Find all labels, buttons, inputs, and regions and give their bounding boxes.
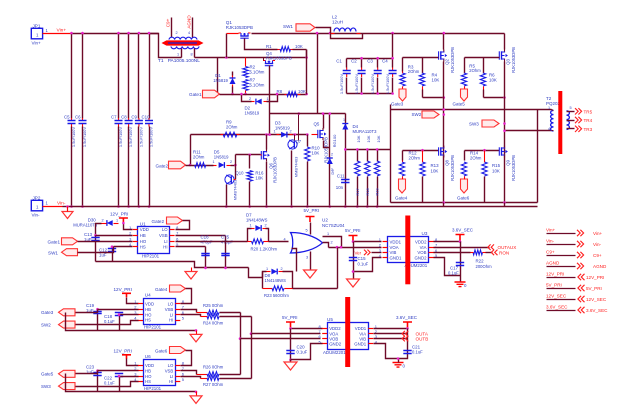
svg-text:2: 2 <box>265 223 267 227</box>
svg-text:3: 3 <box>306 255 308 259</box>
wire D30 to C13 <box>96 224 102 236</box>
svg-text:4: 4 <box>188 31 190 35</box>
junction on Vin- bus x=138.9 <box>138 205 141 208</box>
ground U6 cell <box>195 391 198 394</box>
svg-text:12V_PRI: 12V_PRI <box>110 211 128 216</box>
svg-text:RON: RON <box>499 250 509 255</box>
wire vertical C8 column <box>128 34 130 119</box>
svg-text:Vin+: Vin+ <box>546 228 556 233</box>
wire SW row horizontal <box>391 109 552 111</box>
svg-text:5V_PRI: 5V_PRI <box>586 286 602 291</box>
capacitor C20 0.1uF <box>290 329 292 360</box>
svg-text:1.5uF/100V: 1.5uF/100V <box>128 127 133 148</box>
svg-text:TR5: TR5 <box>584 109 593 114</box>
svg-text:1: 1 <box>213 160 215 164</box>
svg-text:1: 1 <box>331 168 333 172</box>
wire VOB row to U5 <box>241 338 321 340</box>
svg-text:GND1: GND1 <box>354 342 367 347</box>
svg-text:GND2: GND2 <box>329 342 342 347</box>
svg-text:1: 1 <box>267 97 269 101</box>
capacitor C23 1uF <box>97 371 99 392</box>
svg-text:TR3: TR3 <box>584 127 593 132</box>
svg-text:VSB: VSB <box>165 368 174 373</box>
net flag TR3 <box>575 126 582 132</box>
ground C20 <box>289 359 292 362</box>
power 5V_PRI stem to U2 <box>310 223 312 235</box>
svg-text:Gate6: Gate6 <box>457 196 470 201</box>
svg-text:1N5819: 1N5819 <box>245 110 260 115</box>
transformer T1 PA1005.100NL <box>171 18 173 38</box>
svg-text:0.1uF: 0.1uF <box>104 319 115 324</box>
svg-text:Q3: Q3 <box>506 59 511 65</box>
resistor R2 5.1Ohm <box>245 58 247 67</box>
svg-text:Gate1: Gate1 <box>189 92 202 97</box>
svg-text:R22: R22 <box>476 258 485 263</box>
diode D3 1N5819 <box>277 134 280 136</box>
svg-text:5: 5 <box>570 106 572 110</box>
svg-text:4: 4 <box>284 237 286 241</box>
capacitor C3 1.5uF/100V <box>377 59 379 68</box>
resistor R12 2Ohm <box>402 151 404 161</box>
svg-text:3.6V_SEC: 3.6V_SEC <box>396 315 418 320</box>
svg-text:VDD: VDD <box>145 363 154 368</box>
capacitor C17 0.1uF <box>460 242 462 283</box>
capacitor C10 1.5uF/100V <box>148 118 150 127</box>
capacitor C15 0.1uF <box>353 242 355 280</box>
svg-text:Vin+: Vin+ <box>32 41 42 46</box>
wire Gate5 to HB <box>76 373 98 375</box>
resistor R7 5.1Ohm <box>243 80 248 91</box>
svg-text:HO: HO <box>145 312 152 317</box>
ground at JP2 <box>66 205 69 208</box>
wire D5 to gate node <box>231 165 236 167</box>
resistor R13 10K <box>422 151 424 163</box>
svg-text:Q8: Q8 <box>445 160 450 166</box>
svg-text:1N5819: 1N5819 <box>214 155 229 160</box>
resistor R15 10K <box>484 151 486 163</box>
junction on Vin- bus x=128.6 <box>127 205 130 208</box>
svg-text:10K: 10K <box>492 169 500 174</box>
junction on Vin+ bus x=138.9 <box>138 32 141 35</box>
wire VIA to OUTAUX <box>434 247 490 249</box>
wire VOA row to U5 <box>252 333 321 335</box>
wire vertical C10 column <box>149 34 151 119</box>
svg-text:OUTB: OUTB <box>416 337 429 342</box>
wire cap bank bottom bus <box>347 93 393 95</box>
svg-text:2: 2 <box>281 267 283 271</box>
junction SW1 stem <box>329 32 332 35</box>
svg-text:RJK1053DPB: RJK1053DPB <box>266 56 292 61</box>
svg-text:RJK1053DPB: RJK1053DPB <box>511 47 516 73</box>
svg-text:C10: C10 <box>142 115 151 120</box>
junction on Vin+ bus x=82.5 <box>81 32 84 35</box>
resistor R26 0Ohm <box>181 371 197 375</box>
svg-text:200Ohm: 200Ohm <box>476 264 493 269</box>
net flag OUTA <box>402 331 408 337</box>
junction on Vin+ bus x=149 <box>148 32 151 35</box>
net flag OUTAUX <box>488 244 494 250</box>
svg-text:1.5uF/100V: 1.5uF/100V <box>138 127 143 148</box>
svg-text:HB: HB <box>145 307 151 312</box>
wire R23 row to feedback vertical <box>293 288 338 290</box>
wire T2 primary pin4 row <box>505 130 552 132</box>
svg-text:HB: HB <box>140 233 146 238</box>
svg-text:SW1: SW1 <box>283 24 293 29</box>
wire VIB to OUTB <box>374 338 408 340</box>
svg-text:Gate2: Gate2 <box>152 219 165 224</box>
wire Q1 gate drop <box>245 39 253 50</box>
wire Vin- bus <box>68 206 538 208</box>
svg-text:8: 8 <box>191 53 193 57</box>
svg-text:VOB: VOB <box>329 336 338 341</box>
svg-text:R18: R18 <box>365 188 370 196</box>
svg-text:HI: HI <box>169 379 173 384</box>
wire vertical C9 column <box>138 34 140 119</box>
wire U6 ground rail <box>66 374 197 392</box>
flag Gate3 (power stage) <box>399 89 406 101</box>
capacitor C13 1uF <box>95 236 97 262</box>
svg-text:VIB: VIB <box>359 336 366 341</box>
svg-text:U6: U6 <box>145 354 151 359</box>
svg-text:MMBT4403: MMBT4403 <box>294 156 299 177</box>
wire Gate1 to HO <box>78 241 133 243</box>
wire rail into D8 box <box>249 268 263 278</box>
wire U5 GND1 route <box>374 344 408 359</box>
diode D30 MURA110T3 <box>114 223 119 225</box>
wire 12V to U6 VDD <box>127 359 139 366</box>
svg-text:C7: C7 <box>111 115 117 120</box>
T2 primary winding <box>551 111 554 132</box>
svg-text:3.6V_SEC: 3.6V_SEC <box>586 308 608 313</box>
svg-text:JP1: JP1 <box>33 23 41 28</box>
svg-text:U3: U3 <box>422 231 428 236</box>
wire R17-R19 top bus <box>346 149 391 151</box>
wire VIA to OUTA <box>374 333 408 335</box>
wire LO to Gate4 <box>181 289 192 304</box>
T1 core bar <box>162 40 204 45</box>
svg-text:12V_PRI: 12V_PRI <box>546 272 564 277</box>
svg-text:C6: C6 <box>75 115 81 120</box>
svg-text:LI: LI <box>170 312 174 317</box>
svg-text:VOB: VOB <box>417 250 426 255</box>
wire R5 R6 gate bus <box>465 57 500 59</box>
resistor R18 10K <box>367 150 369 162</box>
svg-text:5V_PRI: 5V_PRI <box>282 315 298 320</box>
svg-text:1: 1 <box>116 218 118 222</box>
svg-text:12uH: 12uH <box>332 20 343 25</box>
junction on Vin- bus x=82.5 <box>81 205 84 208</box>
resistor R22 200Ohm <box>434 252 471 254</box>
wire switch-node row <box>270 113 346 115</box>
diode D6 <box>327 158 333 164</box>
svg-text:C5: C5 <box>64 115 70 120</box>
svg-text:HIP2101: HIP2101 <box>142 254 160 259</box>
isolation barrier U3 <box>405 216 410 285</box>
wire Q10 collector down <box>226 185 228 207</box>
ground U1 cell <box>191 268 193 272</box>
svg-text:SW1: SW1 <box>48 251 58 256</box>
capacitor C16 470pF <box>201 254 209 256</box>
wire cap bank drop <box>392 34 394 59</box>
wire LO to Gate6 <box>181 351 192 366</box>
svg-text:Q7: Q7 <box>296 139 302 144</box>
svg-text:LO: LO <box>168 302 174 307</box>
resistor R3 2Ohm <box>402 58 404 72</box>
wire cell3 <box>537 110 539 203</box>
svg-text:Gate5: Gate5 <box>453 101 466 106</box>
junction on Vin- bus x=71.5 <box>70 205 73 208</box>
net flag TR5 <box>575 108 582 114</box>
junction on Vin- bus x=149 <box>148 205 151 208</box>
svg-text:SW3: SW3 <box>41 384 51 389</box>
svg-text:12V_PRI: 12V_PRI <box>114 348 132 353</box>
svg-text:2Ohm: 2Ohm <box>409 156 421 161</box>
wire D4 branch <box>345 114 347 207</box>
svg-text:2: 2 <box>290 130 292 134</box>
svg-text:Ver: Ver <box>355 250 362 255</box>
wire vertical C5 column <box>71 34 73 119</box>
svg-text:C1: C1 <box>336 59 342 64</box>
wire R27 up <box>251 334 253 379</box>
svg-text:SW2: SW2 <box>412 112 422 117</box>
svg-text:R20 1.2KOhm: R20 1.2KOhm <box>251 247 278 252</box>
wire U1 HB row <box>96 235 133 237</box>
wire LI row to D7 box <box>176 241 248 243</box>
svg-text:5V_PRI: 5V_PRI <box>345 228 361 233</box>
svg-text:2Ohm: 2Ohm <box>408 69 420 74</box>
resistor R6 10K <box>483 58 485 74</box>
svg-text:1N4148WS: 1N4148WS <box>265 278 287 283</box>
wire 5V to U3 VDD1 <box>354 241 382 243</box>
svg-text:C11: C11 <box>337 173 345 178</box>
svg-text:1.5uF/100V: 1.5uF/100V <box>118 127 123 148</box>
svg-text:MURA110T3: MURA110T3 <box>353 129 378 134</box>
svg-text:10K: 10K <box>255 176 263 181</box>
svg-text:Gate3: Gate3 <box>41 310 54 315</box>
wire Gate1 row <box>220 94 307 96</box>
svg-text:PA1005.100NL: PA1005.100NL <box>168 58 201 64</box>
wire R12 gate row <box>403 150 439 152</box>
net flag OUTB <box>402 336 408 342</box>
wire cell2 left outline <box>390 110 392 203</box>
wire VSB row / C75 <box>176 235 226 237</box>
svg-text:SW2: SW2 <box>41 322 51 327</box>
wire R14 gate row <box>465 150 500 152</box>
svg-text:VDD1: VDD1 <box>390 239 402 244</box>
svg-text:RJK1053DPB: RJK1053DPB <box>450 47 455 73</box>
resistor R1 10K <box>253 49 278 51</box>
wire U1 ground rail <box>96 262 249 268</box>
svg-text:R13: R13 <box>431 163 440 168</box>
wire LO to Gate2 <box>176 221 190 230</box>
svg-text:1.5uF/100V: 1.5uF/100V <box>354 74 359 95</box>
junction C bank drop <box>391 32 394 35</box>
transistor Q3 RJK1053DPB <box>504 50 506 62</box>
transistor Q8 RJK1053DPB <box>443 146 445 158</box>
svg-text:0.1uF: 0.1uF <box>358 261 369 266</box>
svg-text:1.5uF/100V: 1.5uF/100V <box>370 74 375 95</box>
wire D2 bypass loop <box>242 95 252 102</box>
svg-text:HI: HI <box>169 318 173 323</box>
svg-text:3.6V_SEC: 3.6V_SEC <box>452 227 474 232</box>
transistor Q10 MMBT4403 <box>225 175 234 184</box>
svg-text:C9+: C9+ <box>546 250 555 255</box>
svg-text:2: 2 <box>331 240 333 244</box>
wire Q3 drain drop <box>504 34 506 50</box>
svg-text:10K: 10K <box>489 77 497 82</box>
wire T1 secondary row <box>195 57 307 59</box>
wire U4 ground rail <box>66 313 197 331</box>
svg-text:C3: C3 <box>367 59 373 64</box>
svg-text:10n: 10n <box>336 185 344 190</box>
wire bus corner down to T1 <box>150 34 182 58</box>
svg-text:NC7SZU04: NC7SZU04 <box>322 223 345 228</box>
flag SW2 (U4 input) <box>59 321 76 328</box>
svg-text:LI: LI <box>164 239 168 244</box>
svg-text:R17: R17 <box>355 188 360 196</box>
svg-text:Vin-: Vin- <box>57 201 66 207</box>
wire 5V to U5 VDD2 <box>291 328 323 330</box>
svg-text:AGND: AGND <box>593 264 607 269</box>
resistor R17 10K <box>357 150 359 162</box>
svg-text:Vin-: Vin- <box>593 242 602 247</box>
svg-text:2: 2 <box>249 97 251 101</box>
svg-text:C8: C8 <box>121 115 127 120</box>
wire Q2 drain drop <box>443 34 445 50</box>
svg-text:U1: U1 <box>140 221 146 226</box>
resistor R9 2Ohm <box>221 134 224 136</box>
svg-text:0.1uF: 0.1uF <box>104 381 115 386</box>
svg-text:JP2: JP2 <box>33 195 41 200</box>
svg-text:Gate1: Gate1 <box>48 240 61 245</box>
svg-text:U2: U2 <box>322 218 328 223</box>
svg-text:10K: 10K <box>295 44 303 49</box>
svg-text:RJK1053DPB: RJK1053DPB <box>450 155 455 181</box>
svg-text:U4: U4 <box>145 293 151 298</box>
transistor Q1 RJK1053DPB <box>227 33 239 35</box>
transistor Q9 RJK1053DPB <box>504 146 506 158</box>
svg-text:R1: R1 <box>266 44 272 49</box>
wire Q3 source down <box>504 62 506 203</box>
wire 12V to U1 VDD <box>124 223 133 230</box>
wire Q2 source down <box>443 62 445 203</box>
wire vertical C7 column <box>118 34 120 119</box>
svg-text:GND2: GND2 <box>415 255 428 260</box>
junction on Vin+ bus x=128.6 <box>127 32 130 35</box>
svg-text:Gate5: Gate5 <box>41 372 54 377</box>
flag Gate3 (U4 input) <box>59 309 76 316</box>
svg-text:HS: HS <box>145 318 151 323</box>
svg-text:HS: HS <box>145 379 151 384</box>
diode D4 MURA110T3 <box>342 124 348 130</box>
svg-text:R26 0Ohm: R26 0Ohm <box>203 365 224 370</box>
svg-text:10K: 10K <box>376 135 381 142</box>
wire SW1 to bus <box>316 28 331 34</box>
diode D1 1N5819 <box>217 58 219 95</box>
wire T2 secondary taps <box>567 111 575 113</box>
svg-text:LO: LO <box>168 363 174 368</box>
capacitor C8 1.5uF/100V <box>128 118 130 127</box>
wire R6 to Q3 source <box>484 97 505 99</box>
svg-text:Vin-: Vin- <box>546 239 555 244</box>
svg-text:Vin-: Vin- <box>32 213 41 218</box>
wire GND1 route <box>354 258 382 272</box>
svg-text:HO: HO <box>145 374 152 379</box>
resistor R19 10K <box>377 150 379 162</box>
wire D6 branch <box>329 114 331 207</box>
svg-text:10K: 10K <box>432 77 440 82</box>
svg-text:C9: C9 <box>131 115 137 120</box>
flag SW3 (U6 input) <box>59 383 76 390</box>
svg-text:HIP2101: HIP2101 <box>144 386 162 391</box>
svg-text:10K: 10K <box>312 151 320 156</box>
svg-text:Q9: Q9 <box>506 160 511 166</box>
capacitor C11 10n <box>341 180 349 183</box>
net flag TR4 <box>575 117 582 123</box>
svg-text:T1: T1 <box>158 58 164 64</box>
svg-text:HB: HB <box>145 368 151 373</box>
ground C15 <box>347 279 360 287</box>
wire GND2 route <box>434 258 461 276</box>
junction Q1 drain on T1 row <box>225 56 228 59</box>
connector JP2 <box>31 200 42 211</box>
svg-text:R27 0Ohm: R27 0Ohm <box>203 382 224 387</box>
svg-text:5V_PRI: 5V_PRI <box>304 208 320 213</box>
capacitor C18 0.1uF <box>119 315 121 331</box>
wire SW2 to HS <box>76 321 139 325</box>
svg-text:RJK1053DPB: RJK1053DPB <box>272 157 277 183</box>
svg-text:1: 1 <box>548 106 550 110</box>
resistor R25 0Ohm <box>181 310 197 313</box>
junction on Vin+ bus x=118.5 <box>117 32 120 35</box>
svg-text:2Ohm: 2Ohm <box>226 125 238 130</box>
svg-text:10K: 10K <box>356 135 361 142</box>
svg-text:AGND: AGND <box>546 261 560 266</box>
svg-text:Gate3: Gate3 <box>391 101 404 106</box>
svg-text:RG100: RG100 <box>332 134 337 147</box>
wire U5 GND2 route <box>291 344 323 360</box>
wire HO row <box>120 376 139 378</box>
capacitor C22 0.1uF <box>119 377 121 392</box>
svg-text:1.5uF/100V: 1.5uF/100V <box>385 74 390 95</box>
wire Q1 source to SW node <box>252 33 505 35</box>
svg-text:10K: 10K <box>431 169 439 174</box>
svg-text:R15: R15 <box>492 163 501 168</box>
svg-text:RJK1053DPB: RJK1053DPB <box>511 155 516 181</box>
svg-text:ADUM2201: ADUM2201 <box>323 350 346 355</box>
svg-text:1N5819: 1N5819 <box>213 78 228 83</box>
wire SW1 to HS <box>78 247 114 253</box>
wire Q6 drain <box>266 135 268 150</box>
wire Vin+ top bus <box>71 33 159 35</box>
svg-text:4: 4 <box>548 127 550 131</box>
capacitor C19 1uF <box>97 310 99 331</box>
svg-text:1N5819: 1N5819 <box>275 125 290 130</box>
wire R20 to U2 input <box>269 241 289 243</box>
svg-text:Vin+: Vin+ <box>57 28 67 34</box>
resistor R10 10K <box>307 135 309 147</box>
diode D2 1N5819 <box>252 101 255 103</box>
svg-text:1N4148WS: 1N4148WS <box>246 218 268 223</box>
svg-text:SW3: SW3 <box>469 122 479 127</box>
svg-text:1.5uF/100V: 1.5uF/100V <box>71 127 76 148</box>
svg-text:Q10: Q10 <box>236 170 245 175</box>
wire SW drop from bus <box>317 34 319 114</box>
svg-text:Q2: Q2 <box>445 59 450 65</box>
wire 3.6V to U5 VDD1 <box>374 328 408 330</box>
resistor R4 10K <box>422 58 424 74</box>
svg-text:LI: LI <box>170 374 174 379</box>
